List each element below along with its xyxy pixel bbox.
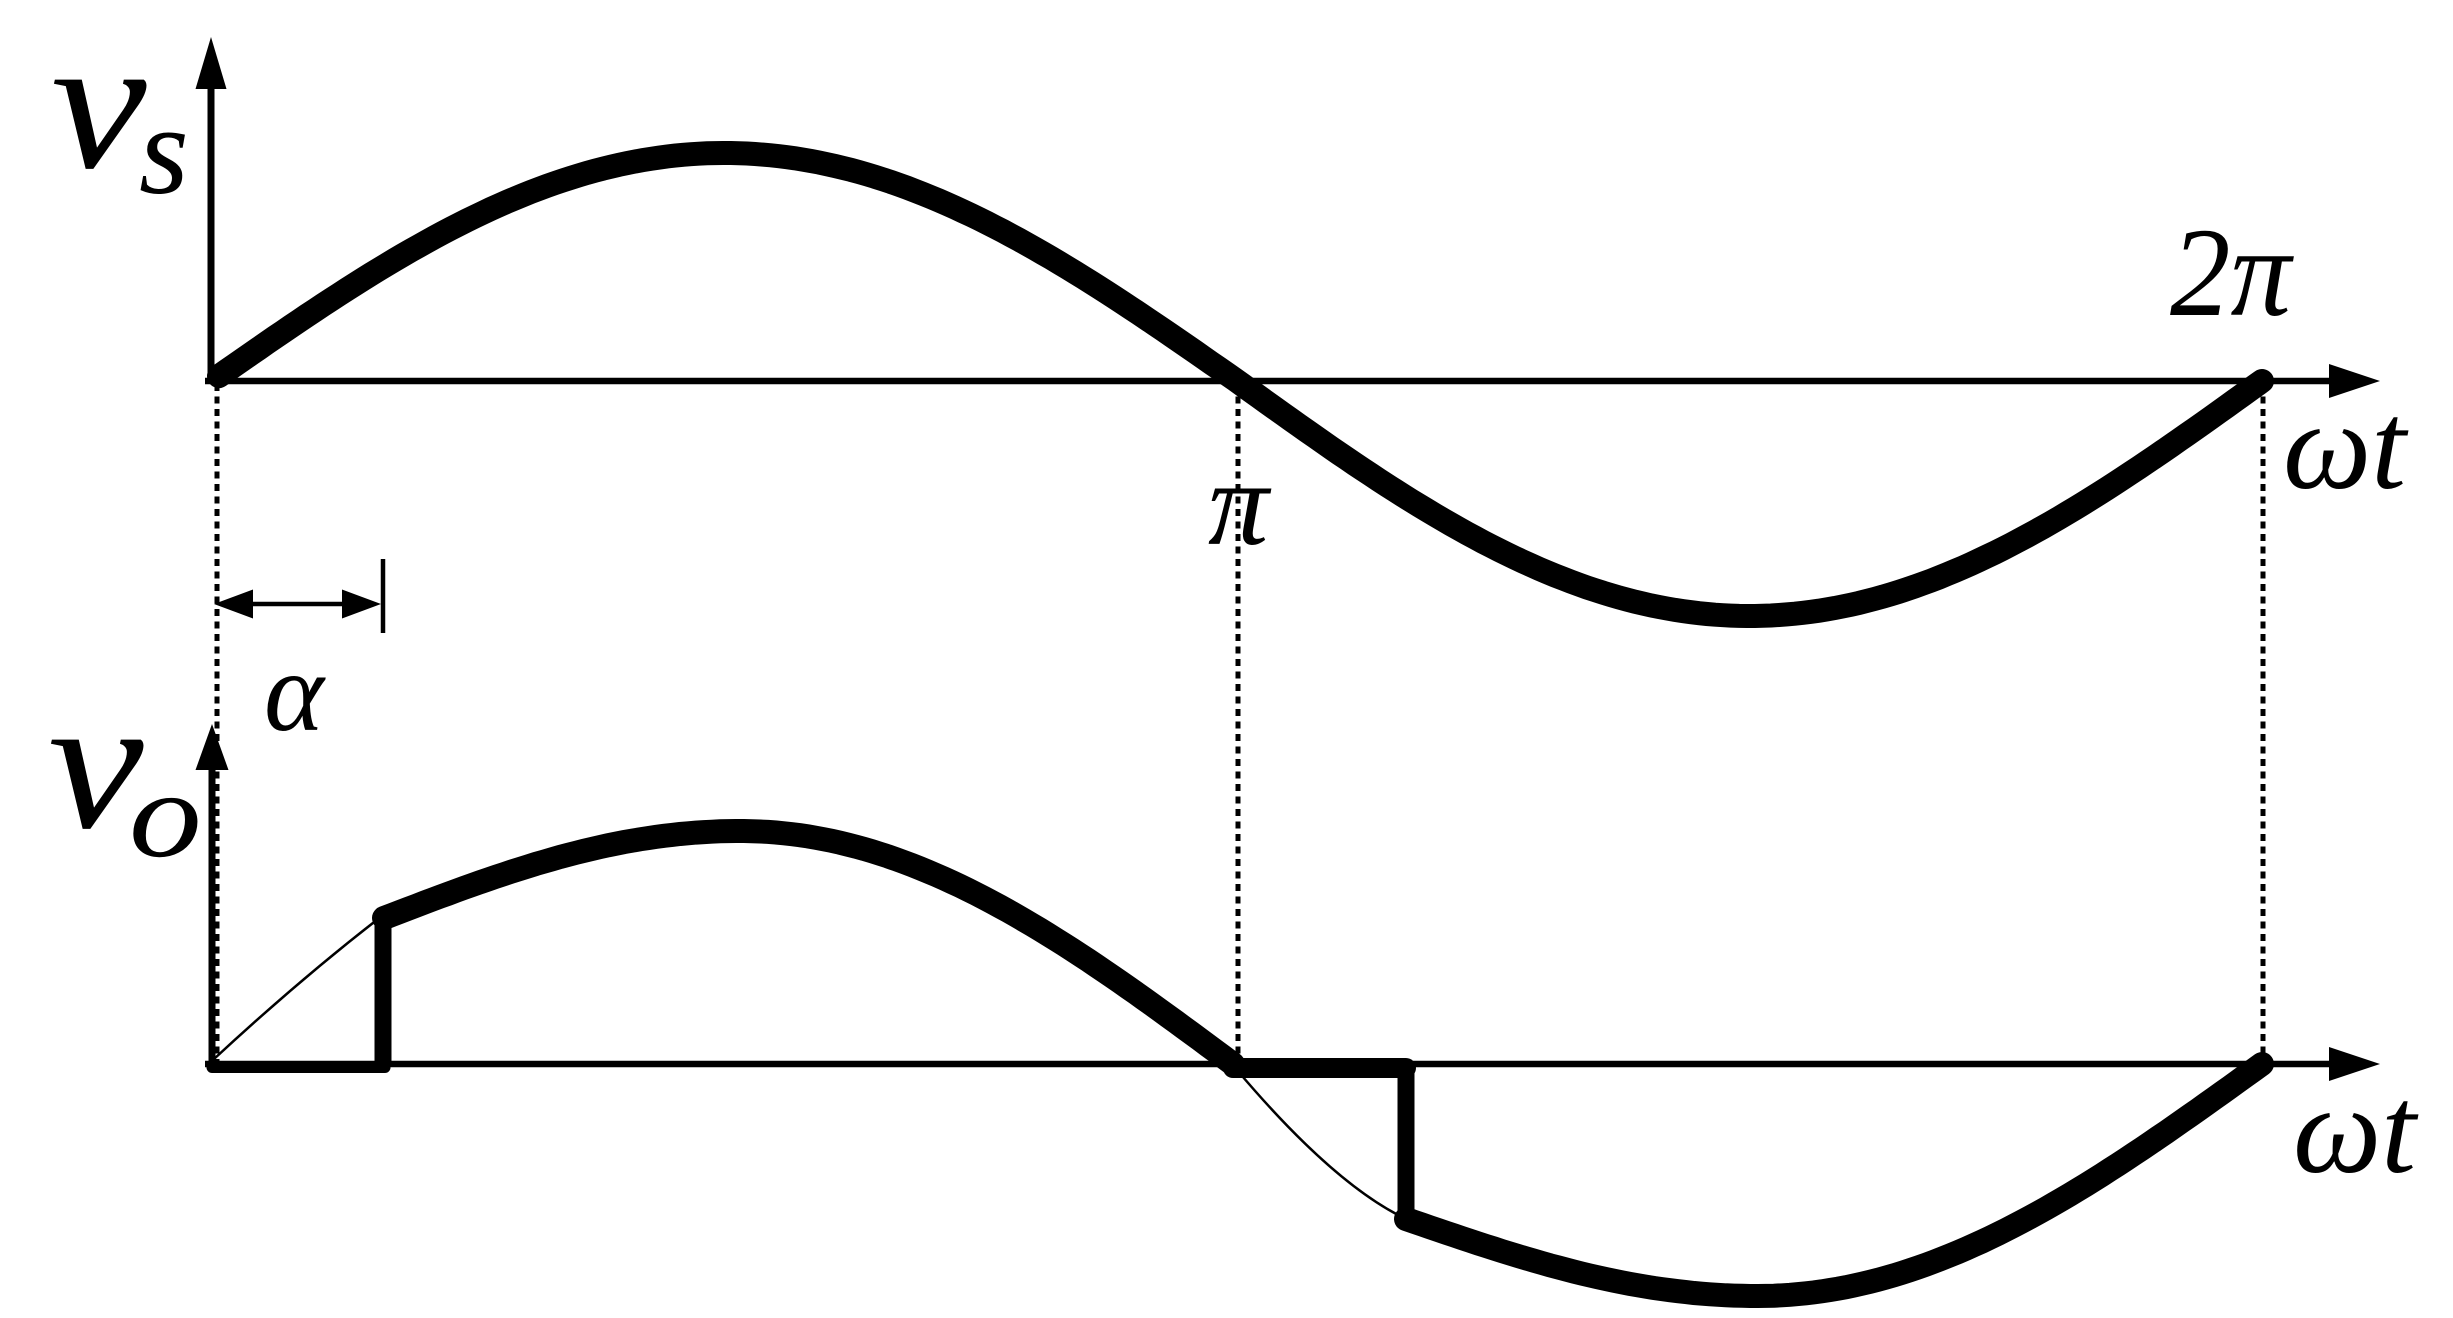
svg-text:α: α [264,628,326,755]
svg-text:s: s [139,79,189,221]
svg-text:v: v [51,0,147,208]
svg-text:o: o [129,747,202,883]
svg-text:π: π [1208,437,1272,571]
svg-text:ωt: ωt [2283,378,2409,516]
svg-text:ωt: ωt [2293,1062,2419,1200]
svg-text:2π: 2π [2170,201,2294,342]
